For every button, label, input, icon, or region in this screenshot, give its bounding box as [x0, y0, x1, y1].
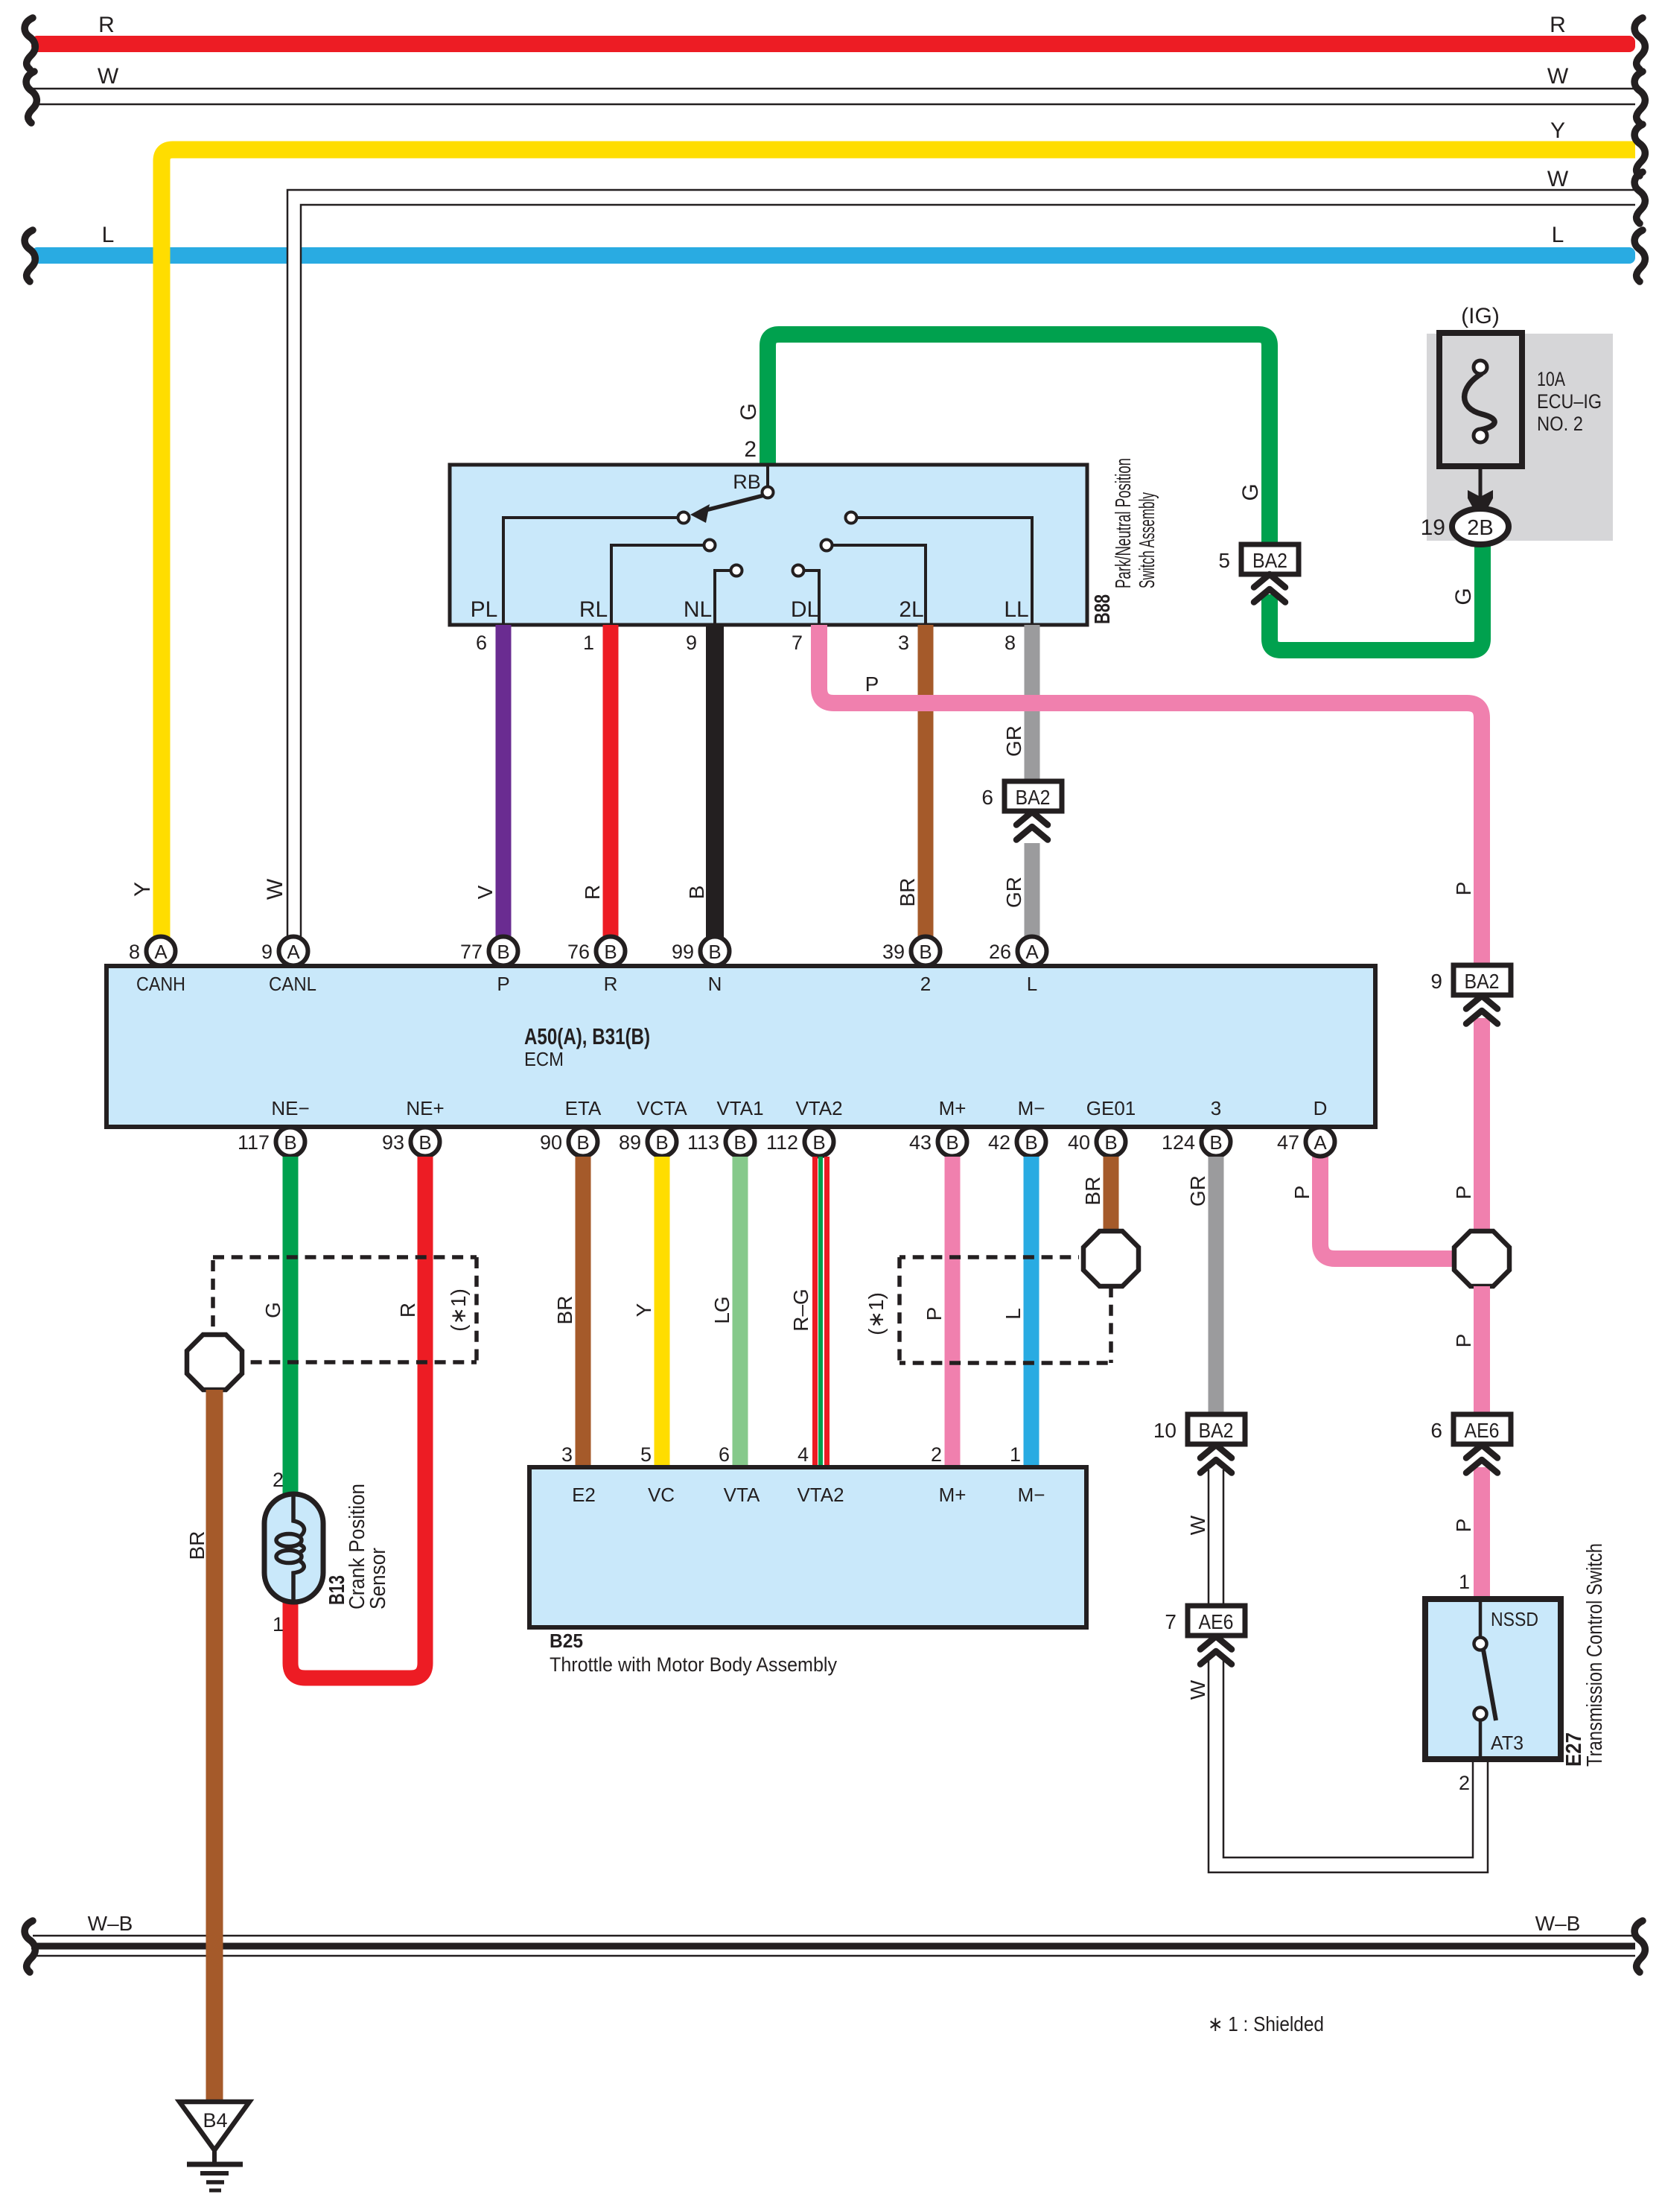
- svg-text:R–G: R–G: [789, 1288, 812, 1332]
- chevron below AE6 7: [1200, 1636, 1232, 1665]
- svg-text:Y: Y: [1550, 118, 1565, 143]
- svg-text:CANL: CANL: [269, 973, 316, 995]
- squiggle R right: [1634, 18, 1645, 69]
- wire W2 (white CANL wire): white underlay then double lines: [294, 197, 1635, 946]
- svg-text:VTA1: VTA1: [716, 1097, 763, 1119]
- svg-text:(IG): (IG): [1461, 304, 1500, 328]
- svg-text:B: B: [418, 1131, 431, 1154]
- svg-text:B: B: [284, 1131, 296, 1154]
- svg-text:E2: E2: [572, 1484, 596, 1506]
- svg-text:B: B: [708, 941, 721, 963]
- svg-text:99: 99: [672, 941, 694, 963]
- svg-text:B25: B25: [550, 1630, 583, 1652]
- svg-text:NE−: NE−: [271, 1097, 309, 1119]
- svg-text:B: B: [604, 941, 617, 963]
- svg-text:117: 117: [238, 1131, 270, 1154]
- connector 9 BA2 on pink wire: [1430, 965, 1511, 995]
- bus Y (yellow) horizontal: [162, 150, 1635, 937]
- svg-text:A: A: [1314, 1131, 1327, 1154]
- svg-text:77: 77: [460, 941, 483, 963]
- wire BR brown ECM 40 GE01 to octagon: [1104, 1157, 1119, 1233]
- svg-text:3: 3: [1211, 1097, 1221, 1119]
- svg-text:3: 3: [898, 632, 909, 654]
- svg-text:AE6: AE6: [1199, 1610, 1234, 1633]
- svg-text:124: 124: [1162, 1131, 1195, 1154]
- E27 switch contacts: [1474, 1638, 1487, 1650]
- ECM pin 124 B: [1162, 1128, 1231, 1157]
- svg-text:M+: M+: [939, 1097, 967, 1119]
- bus R (red power bus): [31, 36, 1635, 52]
- ECM pin 26 A: [989, 937, 1047, 966]
- wire R red ECM 93 to B13 pin 1 (U shape): [290, 1157, 425, 1678]
- B88 PL contact and wire: [678, 512, 690, 524]
- fuse terminal circle top: [1474, 360, 1487, 374]
- squiggle Y right: [1634, 124, 1645, 176]
- squiggle W left: [26, 71, 36, 123]
- svg-text:R: R: [1550, 13, 1566, 37]
- wire P pink B88 DL to transmission control switch: [819, 625, 1482, 965]
- svg-text:W: W: [1547, 167, 1569, 191]
- B88 switch arm RB: [700, 495, 764, 512]
- svg-text:9: 9: [261, 941, 273, 963]
- wire G green lower U from chevron to fuse 2B: [1270, 538, 1483, 650]
- svg-text:6: 6: [1430, 1419, 1442, 1442]
- fuse 10A ECU-IG NO.2 rectangle: [1439, 333, 1522, 466]
- svg-text:B: B: [497, 941, 509, 963]
- svg-text:5: 5: [1218, 549, 1230, 572]
- svg-text:6: 6: [719, 1443, 730, 1466]
- shield octagon junction right: [1454, 1231, 1509, 1286]
- svg-text:B: B: [812, 1131, 825, 1154]
- wire P pink AE6 to E27 pin 1: [1474, 1467, 1490, 1601]
- svg-text:90: 90: [540, 1131, 562, 1154]
- svg-text:47: 47: [1277, 1131, 1299, 1154]
- svg-text:40: 40: [1068, 1131, 1090, 1154]
- B88 NL contact and wire: [731, 565, 742, 576]
- svg-text:BA2: BA2: [1252, 549, 1287, 572]
- svg-text:Switch Assembly: Switch Assembly: [1136, 492, 1159, 588]
- svg-text:26: 26: [989, 941, 1011, 963]
- svg-text:L: L: [102, 223, 115, 247]
- fuse terminal circle bottom: [1474, 429, 1487, 442]
- svg-text:M−: M−: [1018, 1097, 1045, 1119]
- svg-text:L: L: [1552, 223, 1564, 247]
- svg-text:NO. 2: NO. 2: [1537, 413, 1583, 435]
- svg-text:B: B: [685, 886, 708, 900]
- svg-text:W: W: [98, 64, 119, 89]
- svg-text:10: 10: [1153, 1419, 1177, 1442]
- svg-text:P: P: [1452, 1186, 1475, 1200]
- svg-text:ECU–IG: ECU–IG: [1537, 390, 1602, 413]
- svg-text:B: B: [919, 941, 932, 963]
- svg-text:9: 9: [686, 632, 697, 654]
- svg-text:AE6: AE6: [1465, 1419, 1500, 1442]
- svg-text:RB: RB: [733, 471, 761, 493]
- svg-text:P: P: [865, 673, 879, 696]
- svg-text:113: 113: [687, 1131, 719, 1154]
- connector 6 BA2 on gray wire: [981, 781, 1062, 811]
- svg-text:B: B: [1104, 1131, 1117, 1154]
- svg-text:W: W: [1186, 1679, 1209, 1700]
- svg-text:CANH: CANH: [136, 973, 185, 995]
- svg-text:1: 1: [583, 632, 594, 654]
- chevron below AE6 6: [1466, 1445, 1497, 1473]
- svg-text:W–B: W–B: [1535, 1912, 1581, 1935]
- wire R-G red/green stripe ECM 112 VTA2 to B25 4: [815, 1157, 827, 1469]
- svg-text:2L: 2L: [899, 597, 923, 622]
- svg-text:VTA: VTA: [724, 1484, 760, 1506]
- svg-text:1: 1: [1010, 1443, 1021, 1466]
- svg-text:P: P: [1452, 882, 1475, 896]
- svg-text:(∗1): (∗1): [447, 1288, 470, 1332]
- svg-text:B: B: [576, 1131, 589, 1154]
- svg-text:43: 43: [909, 1131, 932, 1154]
- svg-text:39: 39: [882, 941, 905, 963]
- svg-text:B: B: [655, 1131, 668, 1154]
- dashed shield box crank sensor: [213, 1257, 477, 1362]
- svg-text:2B: 2B: [1467, 516, 1493, 540]
- svg-text:19: 19: [1421, 515, 1445, 540]
- svg-text:G: G: [261, 1302, 284, 1318]
- svg-text:9: 9: [1430, 970, 1442, 993]
- svg-text:VTA2: VTA2: [797, 1484, 844, 1506]
- squiggle W-B right: [1634, 1921, 1645, 1972]
- svg-text:2: 2: [273, 1469, 284, 1491]
- svg-text:NL: NL: [684, 597, 712, 622]
- svg-text:VCTA: VCTA: [637, 1097, 687, 1119]
- wire P pink octagon to AE6: [1474, 1286, 1490, 1414]
- wire G green ECM 117 to B13 pin 2: [283, 1157, 299, 1496]
- svg-text:R: R: [581, 885, 604, 900]
- ECM pin 117 B: [238, 1128, 305, 1157]
- B25 Throttle with Motor Body Assembly box: [529, 1467, 1086, 1627]
- svg-text:P: P: [1452, 1334, 1475, 1348]
- svg-text:W: W: [263, 878, 287, 900]
- E27 internal line from pin 1: [1479, 1602, 1483, 1638]
- B88 LL contact and wire: [846, 512, 857, 524]
- ground stem and bars: [212, 2150, 217, 2164]
- svg-text:R: R: [604, 973, 618, 995]
- svg-text:D: D: [1314, 1097, 1328, 1119]
- svg-text:76: 76: [567, 941, 590, 963]
- svg-text:M−: M−: [1018, 1484, 1045, 1506]
- ground B4 triangle: [179, 2102, 249, 2150]
- svg-text:DL: DL: [791, 597, 819, 622]
- B88 internal wire from pin 2: [766, 466, 769, 487]
- svg-text:2: 2: [920, 973, 931, 995]
- svg-text:LL: LL: [1004, 597, 1028, 622]
- svg-text:P: P: [497, 973, 509, 995]
- svg-text:BA2: BA2: [1465, 970, 1500, 993]
- wire P pink from ECM 47 D to octagon: [1320, 1157, 1452, 1259]
- svg-text:Throttle with Motor Body Assem: Throttle with Motor Body Assembly: [550, 1653, 837, 1676]
- svg-text:LG: LG: [710, 1296, 733, 1323]
- svg-text:4: 4: [797, 1443, 809, 1466]
- svg-text:7: 7: [1165, 1610, 1177, 1633]
- svg-text:BA2: BA2: [1016, 786, 1051, 809]
- wire R red B88 RL to ECM 76: [603, 625, 619, 938]
- ECM pin 9 A: [261, 937, 308, 966]
- svg-text:1: 1: [1459, 1571, 1470, 1593]
- svg-text:G: G: [1451, 588, 1476, 605]
- svg-text:G: G: [736, 403, 761, 420]
- svg-text:B: B: [1025, 1131, 1037, 1154]
- arrow from fuse to 2B: [1479, 466, 1483, 498]
- wire LG light green ECM 113 VTA1 to B25 6: [733, 1157, 748, 1469]
- svg-text:B: B: [733, 1131, 746, 1154]
- B88 2L contact and wire: [821, 540, 832, 551]
- svg-text:ECM: ECM: [524, 1048, 564, 1070]
- svg-text:GR: GR: [1002, 725, 1025, 757]
- chevron below BA2 9: [1466, 996, 1497, 1024]
- svg-text:2: 2: [931, 1443, 942, 1466]
- wire GR gray ECM 124 to BA2 10: [1209, 1157, 1224, 1414]
- squiggle W2 right: [1634, 172, 1645, 223]
- svg-text:Transmission Control Switch: Transmission Control Switch: [1583, 1543, 1607, 1767]
- svg-text:PL: PL: [471, 597, 498, 622]
- connector 7 AE6: [1165, 1606, 1245, 1636]
- svg-text:3: 3: [561, 1443, 573, 1466]
- B88 DL contact and wire: [793, 565, 804, 576]
- svg-text:8: 8: [129, 941, 140, 963]
- ECM pin 47 A: [1277, 1128, 1335, 1157]
- ECM pin 39 B: [882, 937, 940, 966]
- wire BR brown ECM 90 ETA to B25 3: [576, 1157, 591, 1469]
- ECM pin 89 B: [619, 1128, 677, 1157]
- svg-text:BR: BR: [1081, 1177, 1104, 1206]
- svg-text:R: R: [396, 1303, 419, 1318]
- chevron below BA2 6: [1016, 812, 1048, 840]
- B13 coil element: [276, 1496, 305, 1600]
- svg-text:GR: GR: [1186, 1175, 1209, 1207]
- B88 Park/Neutral Position Switch Assembly box: [450, 465, 1087, 625]
- svg-text:P: P: [923, 1307, 946, 1321]
- connector oval 2B: [1452, 509, 1509, 544]
- E27 Transmission Control Switch box: [1425, 1599, 1561, 1759]
- svg-text:GE01: GE01: [1086, 1097, 1136, 1119]
- ECM pin 40 B: [1068, 1128, 1126, 1157]
- svg-text:2: 2: [1459, 1772, 1470, 1794]
- W-B ground bus: [31, 1936, 1635, 1956]
- svg-text:A: A: [287, 941, 300, 963]
- svg-text:A50(A), B31(B): A50(A), B31(B): [524, 1023, 650, 1049]
- connector 6 AE6 on pink wire: [1430, 1414, 1511, 1444]
- svg-text:P: P: [1290, 1186, 1314, 1200]
- svg-text:L: L: [1027, 973, 1037, 995]
- B88 RL contact and wire: [704, 540, 716, 551]
- svg-text:∗ 1 : Shielded: ∗ 1 : Shielded: [1208, 2012, 1324, 2035]
- ECM pin 8 A: [129, 937, 176, 966]
- wire Y yellow ECM 89 VCTA to B25 5: [655, 1157, 670, 1469]
- ECM pin 42 B: [988, 1128, 1046, 1157]
- svg-text:(∗1): (∗1): [865, 1292, 888, 1335]
- svg-text:L: L: [1002, 1308, 1025, 1320]
- ECM pin 43 B: [909, 1128, 967, 1157]
- svg-text:Y: Y: [130, 882, 155, 897]
- wire BR brown octagon to ground B4: [206, 1390, 223, 2102]
- wire V purple B88 PL to ECM 77: [496, 625, 512, 938]
- svg-text:42: 42: [988, 1131, 1010, 1154]
- svg-text:ETA: ETA: [565, 1097, 602, 1119]
- ECM pin 112 B: [766, 1128, 834, 1157]
- svg-text:7: 7: [792, 632, 803, 654]
- shield octagon junction left: [187, 1335, 242, 1390]
- svg-text:6: 6: [981, 786, 993, 809]
- ECM pin 93 B: [382, 1128, 440, 1157]
- wire BR crossing over W-B bus (redraw): [206, 1932, 223, 1960]
- svg-text:VC: VC: [648, 1484, 675, 1506]
- wire L blue ECM 42 M- to B25 1: [1024, 1157, 1039, 1469]
- svg-text:W–B: W–B: [88, 1912, 133, 1935]
- svg-text:W: W: [1547, 64, 1569, 89]
- dashed shield box M+ M-: [900, 1257, 1111, 1363]
- fuse element S-curve: [1465, 374, 1495, 430]
- svg-text:8: 8: [1004, 632, 1016, 654]
- squiggle W-B left: [25, 1921, 35, 1972]
- svg-text:NSSD: NSSD: [1491, 1608, 1538, 1630]
- svg-text:G: G: [1238, 483, 1263, 500]
- svg-text:BR: BR: [896, 878, 919, 907]
- wire Y vertical over L bus (redraw cross): [153, 246, 171, 265]
- svg-text:M+: M+: [939, 1484, 967, 1506]
- svg-text:2: 2: [744, 437, 757, 462]
- bus L (blue): [31, 247, 1635, 264]
- wire P pink continues to octagon: [1474, 1018, 1490, 1236]
- svg-text:Y: Y: [632, 1303, 655, 1317]
- svg-text:89: 89: [619, 1131, 641, 1154]
- chevron below BA2 5: [1254, 574, 1285, 603]
- svg-text:B: B: [1209, 1131, 1222, 1154]
- svg-text:B88: B88: [1091, 594, 1115, 624]
- squiggle W right: [1634, 71, 1645, 123]
- ECM pin 76 B: [567, 937, 625, 966]
- svg-text:112: 112: [766, 1131, 798, 1154]
- wire GR gray B88 LL to ECM 26 with connector: [1025, 625, 1040, 781]
- svg-text:B: B: [946, 1131, 958, 1154]
- svg-text:P: P: [1452, 1519, 1475, 1533]
- B88 RB contact circle: [762, 487, 774, 498]
- svg-text:93: 93: [382, 1131, 404, 1154]
- connector 10 BA2: [1153, 1414, 1245, 1444]
- svg-text:AT3: AT3: [1491, 1732, 1523, 1754]
- svg-text:VTA2: VTA2: [795, 1097, 842, 1119]
- chevron below BA2 10: [1200, 1445, 1232, 1473]
- B13 crank position sensor: [264, 1494, 323, 1602]
- ECM pin 77 B: [460, 937, 518, 966]
- svg-text:Park/Neutral Position: Park/Neutral Position: [1112, 458, 1136, 588]
- svg-text:GR: GR: [1002, 877, 1025, 908]
- wire P pink ECM 43 M+ to B25 2: [945, 1157, 961, 1469]
- squiggle L right: [1634, 230, 1645, 282]
- shield octagon junction GE01: [1083, 1231, 1139, 1286]
- squiggle R left: [25, 18, 35, 69]
- svg-text:Sensor: Sensor: [366, 1548, 390, 1609]
- svg-text:BA2: BA2: [1199, 1419, 1234, 1442]
- ECM pin 113 B: [687, 1128, 755, 1157]
- wire BR brown B88 2L to ECM 39: [918, 625, 934, 938]
- svg-text:A: A: [1025, 941, 1039, 963]
- svg-text:W: W: [1186, 1515, 1209, 1535]
- wire W white AE6 7 to E27 pin 2 (double line U): [1209, 1659, 1488, 1872]
- svg-text:NE+: NE+: [406, 1097, 444, 1119]
- svg-text:5: 5: [640, 1443, 652, 1466]
- svg-text:B4: B4: [203, 2109, 227, 2132]
- svg-text:A: A: [154, 941, 168, 963]
- fuse block gray background: [1427, 334, 1613, 541]
- svg-text:N: N: [708, 973, 722, 995]
- svg-text:6: 6: [476, 632, 487, 654]
- wire B black B88 NL to ECM 99: [706, 625, 724, 938]
- connector 5 BA2 on green wire: [1218, 544, 1299, 574]
- svg-text:RL: RL: [579, 597, 608, 622]
- svg-text:V: V: [474, 885, 497, 899]
- svg-text:BR: BR: [185, 1531, 208, 1560]
- ECM box A50(A) B31(B): [106, 966, 1375, 1127]
- svg-text:10A: 10A: [1537, 368, 1565, 390]
- bus W (white wire, double line): [33, 89, 1635, 104]
- svg-text:R: R: [98, 13, 115, 37]
- svg-text:BR: BR: [553, 1296, 576, 1325]
- wire G green from B88 pin 2 up over to fuse circuit: [768, 334, 1270, 544]
- ECM pin 90 B: [540, 1128, 598, 1157]
- squiggle L left: [25, 230, 35, 282]
- wire W white BA2 10 to AE6 7 (double line): [1209, 1469, 1223, 1606]
- ECM pin 99 B: [672, 937, 730, 966]
- svg-text:1: 1: [273, 1613, 284, 1636]
